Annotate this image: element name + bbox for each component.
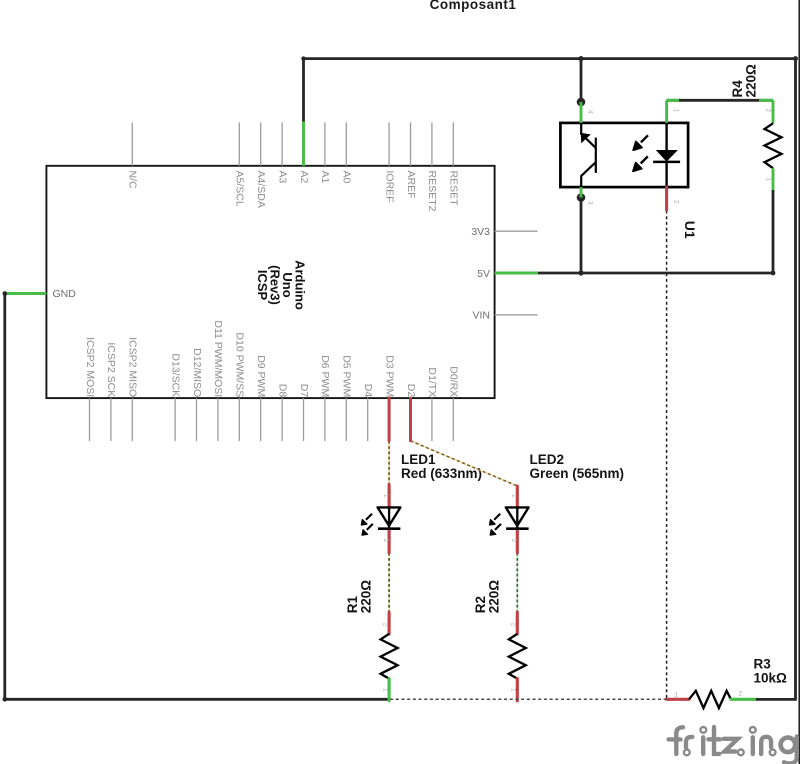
svg-text:10kΩ: 10kΩ bbox=[754, 671, 788, 686]
LED2 bbox=[490, 486, 529, 553]
svg-text:1: 1 bbox=[765, 178, 772, 182]
arduino top pin labels bbox=[127, 171, 460, 212]
svg-text:R3: R3 bbox=[754, 657, 772, 672]
arduino bottom pins bbox=[90, 398, 454, 441]
svg-text:ICSP2 MISO: ICSP2 MISO bbox=[127, 337, 139, 397]
svg-text:2: 2 bbox=[510, 539, 517, 543]
svg-text:R1220Ω: R1220Ω bbox=[345, 580, 374, 614]
U1 pin 3 (green) bbox=[580, 187, 583, 197]
ratsnest LED2 to R2 (dashed) bbox=[516, 553, 518, 613]
U1 light arrows bbox=[641, 135, 648, 142]
svg-text:R2220Ω: R2220Ω bbox=[473, 580, 502, 614]
svg-text:1: 1 bbox=[510, 688, 517, 692]
U1 pin number labels bbox=[587, 109, 680, 206]
arduino pin D2 (red wire end) bbox=[409, 398, 412, 441]
svg-text:D13/SCK: D13/SCK bbox=[169, 353, 181, 397]
resistor R1 bbox=[381, 612, 398, 700]
svg-text:VIN: VIN bbox=[472, 310, 490, 322]
canvas right edge line bbox=[798, 0, 800, 764]
arduino side pin labels bbox=[53, 226, 491, 322]
junction dot A2 corner bbox=[301, 56, 305, 60]
svg-text:2: 2 bbox=[510, 623, 517, 627]
svg-text:D1/TX: D1/TX bbox=[426, 367, 438, 397]
arduino right pins 3V3 VIN bbox=[495, 231, 538, 315]
svg-text:A1: A1 bbox=[319, 171, 331, 184]
svg-text:2: 2 bbox=[673, 200, 680, 204]
wire 5V pin segment (green) bbox=[495, 272, 538, 275]
junction dot 5V rail / pin3 wire bbox=[578, 270, 583, 275]
U1 pin 1 (green) bbox=[665, 100, 668, 123]
svg-text:D3 PWM: D3 PWM bbox=[383, 355, 395, 397]
svg-text:AREF: AREF bbox=[405, 171, 417, 199]
svg-text:Composant1: Composant1 bbox=[430, 0, 517, 12]
svg-text:3: 3 bbox=[587, 201, 594, 205]
svg-text:D0/RX: D0/RX bbox=[448, 366, 460, 397]
svg-text:LED1: LED1 bbox=[401, 452, 436, 467]
svg-text:1: 1 bbox=[673, 109, 680, 113]
wire A2 to top-right rail (black) bbox=[304, 59, 796, 700]
svg-text:Red (633nm): Red (633nm) bbox=[401, 466, 482, 481]
svg-text:3V3: 3V3 bbox=[471, 226, 490, 238]
LED1 bbox=[361, 485, 400, 553]
svg-text:Green (565nm): Green (565nm) bbox=[530, 466, 625, 481]
svg-text:D5 PWM: D5 PWM bbox=[341, 355, 353, 397]
ratsnest LED1 to R1 (dashed) bbox=[388, 553, 390, 613]
svg-text:A2: A2 bbox=[298, 171, 310, 184]
svg-text:1: 1 bbox=[675, 691, 679, 698]
svg-text:A5/SCL: A5/SCL bbox=[234, 171, 246, 207]
svg-text:2: 2 bbox=[382, 539, 389, 543]
svg-text:D8: D8 bbox=[276, 384, 288, 398]
svg-text:D6 PWM: D6 PWM bbox=[319, 355, 331, 397]
svg-text:D9 PWM: D9 PWM bbox=[255, 355, 267, 397]
svg-text:1: 1 bbox=[381, 688, 388, 692]
svg-text:RESET: RESET bbox=[448, 171, 460, 207]
arduino pin D3 (red wire end) bbox=[388, 398, 391, 441]
arduino module U-board body bbox=[46, 166, 494, 398]
ratsnest D3 to LED1 (dashed) bbox=[388, 441, 390, 485]
svg-text:D7: D7 bbox=[298, 384, 310, 398]
wire 5V run (black) bbox=[538, 272, 773, 275]
junction dot bottom-left corner bbox=[3, 697, 8, 702]
junction dot U1 pin3 tip bbox=[577, 193, 586, 202]
wire U1 pin4 up to rail (black) bbox=[580, 59, 583, 102]
arduino top pins bbox=[132, 122, 453, 165]
fritzing watermark logo bbox=[669, 727, 797, 763]
svg-text:2: 2 bbox=[381, 623, 388, 627]
ratsnest U1 pin2 to R3 (dashed vertical) bbox=[666, 211, 668, 700]
wire R4 bottom to 5V rail (black) bbox=[772, 190, 775, 273]
optocoupler U1 body bbox=[560, 100, 688, 210]
svg-text:A3: A3 bbox=[276, 171, 288, 184]
svg-text:1: 1 bbox=[382, 494, 389, 498]
junction dot top rail / U1 pin4 bbox=[578, 56, 583, 61]
svg-text:U1: U1 bbox=[682, 221, 698, 239]
svg-text:N/C: N/C bbox=[127, 171, 139, 190]
svg-text:D12/MISO: D12/MISO bbox=[191, 348, 203, 397]
svg-text:A0: A0 bbox=[341, 171, 353, 184]
U1 pin 4 (green) bbox=[580, 102, 583, 123]
svg-text:D4: D4 bbox=[362, 384, 374, 398]
arduino bottom pin labels bbox=[84, 320, 460, 397]
wire A2 pin segment (green) bbox=[302, 122, 305, 166]
svg-text:5V: 5V bbox=[477, 268, 490, 280]
resistor R2 bbox=[509, 612, 526, 700]
junction dot top-right corner bbox=[793, 56, 798, 61]
svg-text:IOREF: IOREF bbox=[383, 171, 395, 203]
svg-text:2: 2 bbox=[739, 690, 743, 697]
svg-text:GND: GND bbox=[53, 288, 77, 300]
svg-text:D10 PWM/SS: D10 PWM/SS bbox=[234, 332, 246, 397]
U1 internal LED bbox=[665, 123, 667, 150]
junction dot U1 pin4 tip bbox=[577, 98, 586, 107]
junction dot GND corner bbox=[3, 291, 8, 296]
U1 pin 2 (red, unrouted) bbox=[665, 187, 668, 210]
resistor R3 bbox=[667, 690, 755, 708]
svg-text:1: 1 bbox=[510, 494, 517, 498]
svg-text:A4/SDA: A4/SDA bbox=[255, 171, 267, 208]
ratsnest GND run to R3 (dashed horizontal) bbox=[390, 698, 667, 700]
svg-text:2: 2 bbox=[765, 109, 772, 113]
svg-text:ICSP2 SCK: ICSP2 SCK bbox=[105, 342, 117, 397]
svg-text:D2: D2 bbox=[405, 384, 417, 398]
svg-text:4: 4 bbox=[587, 110, 594, 114]
wire U1 pin1 to R4 (black with green ends) bbox=[667, 99, 773, 102]
svg-text:R4220Ω: R4220Ω bbox=[730, 64, 759, 98]
svg-text:D11 PWM/MOSI: D11 PWM/MOSI bbox=[212, 320, 224, 397]
wire U1 pin3 down to 5V rail (black) bbox=[580, 198, 583, 274]
U1 phototransistor bbox=[595, 138, 597, 173]
wire GND pin segment (green) bbox=[5, 292, 47, 295]
ratsnest D2 to LED2 (dashed) bbox=[411, 441, 518, 486]
svg-text:LED2: LED2 bbox=[530, 452, 565, 467]
svg-text:ICSP2 MOSI: ICSP2 MOSI bbox=[84, 337, 96, 397]
wire GND to bottom run (black) bbox=[5, 294, 390, 700]
resistor R4 bbox=[765, 100, 782, 190]
junction dot 5V rail / R4 wire bbox=[771, 271, 776, 276]
svg-text:RESET2: RESET2 bbox=[426, 171, 438, 212]
